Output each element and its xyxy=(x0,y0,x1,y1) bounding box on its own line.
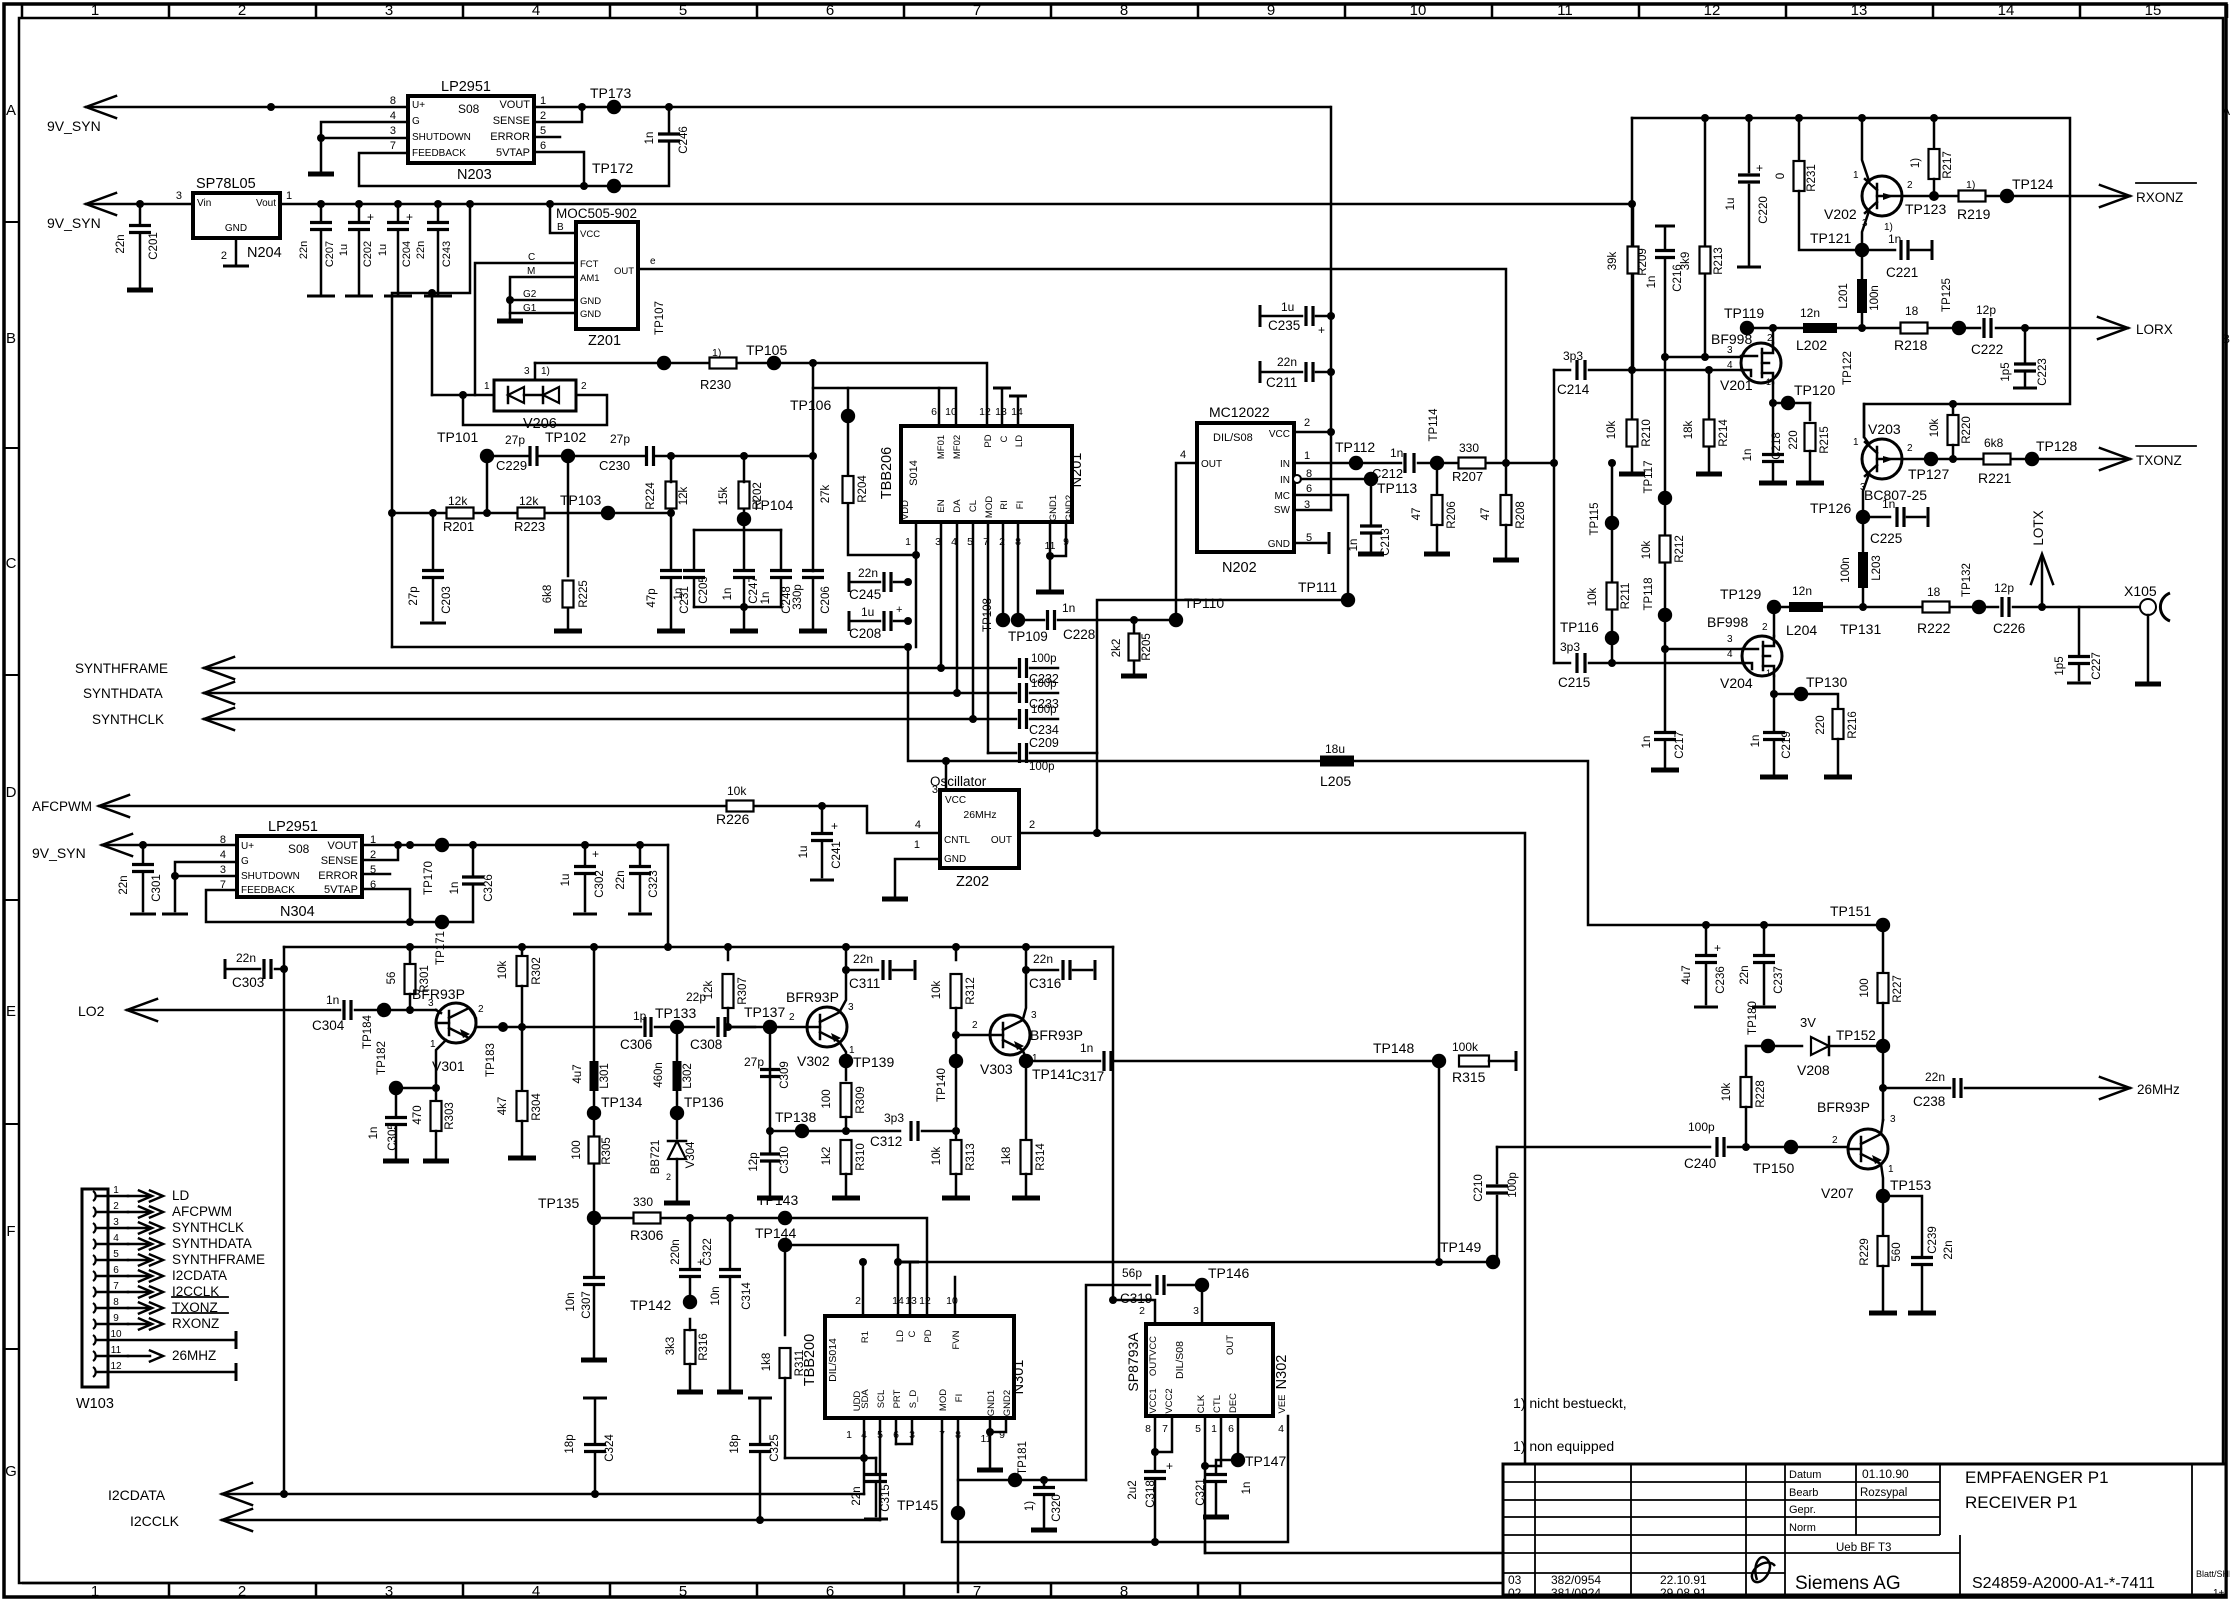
terminal pin13 no-connect xyxy=(1001,390,1004,426)
wire N204 Vout 9V rail to x1632 xyxy=(280,203,1632,206)
test point TP153 xyxy=(1876,1189,1890,1203)
node R213 bottom gate3 xyxy=(1701,353,1709,361)
svg-text:3p3: 3p3 xyxy=(1563,349,1583,363)
node C201 tap xyxy=(136,200,144,208)
wire TP101 down xyxy=(486,456,489,513)
svg-text:4: 4 xyxy=(532,2,540,19)
svg-text:10k: 10k xyxy=(1929,418,1941,437)
wire TP152 down xyxy=(1882,1046,1885,1088)
svg-text:22n: 22n xyxy=(298,241,310,259)
node C209 OUT junction xyxy=(1093,829,1101,837)
connector W103 pin 9 RXONZ xyxy=(93,1319,96,1329)
wire R230 line xyxy=(535,363,987,426)
capacitor C305 1n xyxy=(395,1088,398,1116)
svg-text:TBB200: TBB200 xyxy=(802,1334,818,1386)
svg-text:TP120: TP120 xyxy=(1794,382,1835,398)
svg-text:R231: R231 xyxy=(1806,164,1818,192)
net TXONZ arrow xyxy=(2100,448,2130,470)
svg-text:TP147: TP147 xyxy=(1245,1453,1286,1469)
svg-text:Siemens AG: Siemens AG xyxy=(1795,1573,1901,1594)
svg-text:7: 7 xyxy=(113,1281,119,1292)
capacitor C211 22n xyxy=(1259,361,1262,383)
resistor R209 39k xyxy=(1628,247,1639,274)
svg-text:C205: C205 xyxy=(698,576,710,604)
wire RI pin2 xyxy=(1002,522,1005,620)
svg-text:1) non equipped: 1) non equipped xyxy=(1513,1438,1614,1454)
svg-text:AFCPWM: AFCPWM xyxy=(172,1204,232,1219)
net SYNTHFRAME arrow xyxy=(204,657,234,679)
node C237 tap xyxy=(1760,921,1768,929)
resistor R210 10k xyxy=(1631,370,1634,420)
wire EN pin3 xyxy=(940,522,943,668)
node C316 tap xyxy=(1022,966,1030,974)
capacitor C210 100p xyxy=(1493,1196,1497,1262)
svg-text:TP142: TP142 xyxy=(630,1297,671,1313)
wire VCC vertical xyxy=(1330,107,1333,510)
svg-text:V207: V207 xyxy=(1821,1185,1854,1201)
resistor R229 560 xyxy=(1882,1196,1885,1236)
capacitor C243 22n xyxy=(437,204,440,222)
svg-text:TP180: TP180 xyxy=(1747,1001,1759,1035)
svg-text:12p: 12p xyxy=(1994,581,2014,595)
test point TP127 xyxy=(1924,452,1938,466)
svg-text:I2CDATA: I2CDATA xyxy=(108,1487,166,1503)
test point TP113 xyxy=(1364,472,1378,486)
voltage regulator N204 SP78L05 box xyxy=(193,193,280,238)
svg-text:R214: R214 xyxy=(1718,419,1730,447)
test point TP125 xyxy=(1952,321,1966,335)
svg-text:TP108: TP108 xyxy=(982,598,994,632)
test point TP101 xyxy=(480,449,494,463)
svg-text:C247: C247 xyxy=(748,576,760,604)
svg-text:L203: L203 xyxy=(1871,555,1883,581)
test point TP148 xyxy=(1432,1054,1446,1068)
wire bracket vertical xyxy=(1553,370,1556,663)
node Z201 B tap xyxy=(546,200,554,208)
svg-text:47p: 47p xyxy=(646,588,658,607)
wire N304 SENSE xyxy=(362,845,398,860)
svg-text:D: D xyxy=(6,784,17,801)
svg-text:2: 2 xyxy=(1139,1305,1145,1317)
svg-text:100p: 100p xyxy=(1031,704,1057,716)
svg-text:N202: N202 xyxy=(1222,560,1257,576)
resistor R304 4k7 xyxy=(521,1027,524,1090)
connector W103 pin 1 LD xyxy=(93,1191,96,1201)
svg-text:4u7: 4u7 xyxy=(1681,965,1693,984)
wire N301 SDA xyxy=(863,1418,866,1494)
wire N202 SW pin3 xyxy=(1294,509,1331,512)
svg-text:TP115: TP115 xyxy=(1589,502,1601,535)
svg-text:Vout: Vout xyxy=(256,198,276,209)
svg-text:1p5: 1p5 xyxy=(2054,656,2066,675)
svg-text:1: 1 xyxy=(1211,1423,1217,1435)
wire TP138 line xyxy=(768,1130,900,1133)
svg-text:6: 6 xyxy=(540,140,546,152)
svg-text:R210: R210 xyxy=(1641,419,1653,447)
node V204 gate3 xyxy=(1661,645,1669,653)
wire N302 OUTVCC feed xyxy=(1113,1300,1155,1324)
inductor L302 460n xyxy=(676,1027,679,1060)
svg-text:LORX: LORX xyxy=(2136,322,2173,337)
svg-text:TP110: TP110 xyxy=(1184,595,1224,611)
wire MOD to C209 line xyxy=(988,752,1016,755)
node R205 top xyxy=(1130,616,1138,624)
svg-text:TP124: TP124 xyxy=(2012,176,2053,192)
svg-text:7: 7 xyxy=(973,1583,981,1600)
svg-text:S08: S08 xyxy=(458,102,480,116)
capacitor C219 1n xyxy=(1773,694,1776,730)
node C204 tap xyxy=(394,200,402,208)
svg-text:R223: R223 xyxy=(514,519,545,534)
ground N203 shutdown xyxy=(308,172,334,177)
svg-text:2: 2 xyxy=(1907,443,1913,454)
node VDD R204 junction xyxy=(912,551,920,559)
svg-text:C243: C243 xyxy=(441,241,453,267)
svg-text:TP184: TP184 xyxy=(362,1014,374,1048)
capacitor C202 1u polarized xyxy=(358,204,361,222)
svg-text:330p: 330p xyxy=(792,584,804,610)
node EN junction xyxy=(937,664,945,672)
svg-text:V204: V204 xyxy=(1720,675,1753,691)
svg-text:SYNTHCLK: SYNTHCLK xyxy=(92,712,164,727)
capacitor C320 1) xyxy=(1040,1476,1048,1484)
wire TP131 line xyxy=(1774,606,1998,609)
test point TP152 xyxy=(1876,1039,1890,1053)
wire C228 line xyxy=(1018,619,1044,622)
wire R201 line xyxy=(392,512,671,515)
svg-text:C: C xyxy=(999,435,1010,442)
svg-text:DEC: DEC xyxy=(1228,1393,1239,1413)
svg-text:V202: V202 xyxy=(1824,206,1857,222)
svg-text:GND2: GND2 xyxy=(1064,495,1075,521)
wire N302 CLK xyxy=(1204,1416,1207,1553)
svg-text:7: 7 xyxy=(1162,1423,1168,1435)
node VOUT x410 xyxy=(406,841,414,849)
svg-text:A: A xyxy=(6,102,16,119)
node R202 top xyxy=(740,452,748,460)
svg-text:R226: R226 xyxy=(716,811,750,827)
test point TP143 xyxy=(778,1211,792,1225)
svg-text:R304: R304 xyxy=(531,1093,543,1121)
test point TP144 xyxy=(778,1238,792,1252)
wire C309 C310 column xyxy=(769,1027,772,1131)
svg-text:R213: R213 xyxy=(1713,247,1725,275)
svg-text:3: 3 xyxy=(848,1002,854,1013)
svg-text:I2CDATA: I2CDATA xyxy=(172,1268,227,1283)
wire N301 SCL xyxy=(879,1418,882,1520)
svg-text:2: 2 xyxy=(478,1004,484,1015)
resistor R215 220 xyxy=(1809,403,1812,420)
resistor R307 12k xyxy=(727,947,730,960)
svg-text:3: 3 xyxy=(1727,345,1733,356)
svg-text:9: 9 xyxy=(1267,2,1275,19)
resistor R303 470 xyxy=(435,1088,438,1101)
IC N301 TBB200 box xyxy=(825,1316,1014,1418)
svg-text:L202: L202 xyxy=(1796,337,1827,353)
svg-text:S24859-A2000-A1-*-7411: S24859-A2000-A1-*-7411 xyxy=(1972,1575,2155,1592)
capacitor C248 1n xyxy=(780,530,783,568)
svg-text:TP170: TP170 xyxy=(423,861,435,895)
svg-text:SYNTHCLK: SYNTHCLK xyxy=(172,1220,244,1235)
svg-text:1u: 1u xyxy=(798,846,810,859)
svg-text:8: 8 xyxy=(1120,1583,1128,1600)
test point TP145 xyxy=(951,1506,965,1520)
svg-text:C201: C201 xyxy=(148,232,160,260)
node C325 junction xyxy=(756,1516,764,1524)
svg-text:L205: L205 xyxy=(1320,773,1351,789)
capacitor C304 1n xyxy=(344,1000,351,1020)
capacitor C319 56p xyxy=(1157,1275,1164,1295)
svg-text:VOUT: VOUT xyxy=(499,99,530,111)
svg-text:C203: C203 xyxy=(441,586,453,614)
svg-text:3p3: 3p3 xyxy=(884,1111,904,1125)
wire Z201 B xyxy=(550,204,576,233)
connector W103 pin 12 xyxy=(93,1367,96,1377)
svg-text:TP117: TP117 xyxy=(1643,460,1655,493)
svg-text:2: 2 xyxy=(581,381,587,392)
svg-text:1: 1 xyxy=(914,839,920,851)
svg-text:TP140: TP140 xyxy=(936,1068,948,1102)
svg-text:12n: 12n xyxy=(1792,584,1812,598)
svg-text:TP149: TP149 xyxy=(1440,1239,1481,1255)
test point TP115 xyxy=(1605,516,1619,530)
svg-text:2: 2 xyxy=(789,1012,795,1023)
node DA junction xyxy=(953,689,961,697)
svg-text:1n: 1n xyxy=(644,132,656,145)
resistor R206 47 xyxy=(1436,463,1439,494)
svg-text:C218: C218 xyxy=(1771,432,1783,460)
svg-text:C310: C310 xyxy=(779,1146,791,1174)
svg-text:MOD: MOD xyxy=(938,1389,949,1411)
svg-text:1u: 1u xyxy=(338,244,350,256)
test point TP105 xyxy=(767,356,781,370)
svg-text:R217: R217 xyxy=(1942,151,1954,179)
varicap diode V304 BB721 xyxy=(668,1141,686,1159)
node emitter junction xyxy=(432,1084,440,1092)
svg-text:1: 1 xyxy=(540,95,546,107)
svg-text:R206: R206 xyxy=(1446,501,1458,529)
svg-text:+: + xyxy=(1756,161,1763,175)
wire R212 column xyxy=(1664,357,1667,649)
svg-text:22n: 22n xyxy=(415,241,427,259)
test point TP132 xyxy=(1972,600,1986,614)
svg-text:C239: C239 xyxy=(1927,1226,1939,1254)
node TP131 xyxy=(1859,603,1867,611)
net 9V_SYN arrow lower xyxy=(102,834,132,856)
wire supply rail lower section xyxy=(392,646,908,649)
transistor V301 BFR93P xyxy=(436,1003,476,1043)
wire V206 pin3 xyxy=(534,363,537,380)
node R211 top xyxy=(1608,459,1616,467)
svg-text:EMPFAENGER P1: EMPFAENGER P1 xyxy=(1965,1468,2109,1487)
svg-text:11: 11 xyxy=(1557,2,1573,19)
wire V301 base xyxy=(436,1010,441,1013)
svg-text:L201: L201 xyxy=(1838,283,1850,309)
node 5VTAP-feedback junction xyxy=(580,182,588,190)
svg-text:2: 2 xyxy=(1832,1135,1838,1146)
svg-text:W103: W103 xyxy=(76,1396,114,1412)
wire C205 C247 C248 bracket top xyxy=(694,529,781,532)
net SYNTHCLK arrow xyxy=(204,708,234,730)
inductor L204 12n xyxy=(1789,602,1823,612)
svg-text:C234: C234 xyxy=(1029,723,1059,737)
svg-text:5: 5 xyxy=(113,1249,119,1260)
svg-text:56: 56 xyxy=(386,972,398,985)
resistor R221 6k8 xyxy=(1984,454,2011,465)
svg-text:C221: C221 xyxy=(1886,265,1918,280)
wire V303 collector xyxy=(1023,947,1026,1019)
wire FI pin8 xyxy=(1017,522,1020,620)
wire SYNTHCLK xyxy=(204,718,1016,721)
connector W103 pin 2 AFCPWM xyxy=(93,1207,96,1217)
wire C319 branch xyxy=(1086,1285,1150,1480)
svg-text:6: 6 xyxy=(1306,483,1312,495)
svg-text:R302: R302 xyxy=(531,957,543,985)
wire V204 gate3 line xyxy=(1665,648,1742,651)
capacitor C218 1n xyxy=(1772,403,1775,452)
node TP122 xyxy=(1858,324,1866,332)
svg-text:4: 4 xyxy=(1727,360,1733,371)
svg-text:MOC505-902: MOC505-902 xyxy=(556,206,637,221)
wire I2CCLK xyxy=(222,1519,880,1522)
svg-text:1u: 1u xyxy=(1281,300,1294,314)
svg-text:DIL/S014: DIL/S014 xyxy=(827,1338,839,1382)
svg-text:TP129: TP129 xyxy=(1720,586,1761,602)
svg-text:12k: 12k xyxy=(519,494,539,508)
svg-text:C305: C305 xyxy=(387,1123,399,1151)
svg-text:TP127: TP127 xyxy=(1908,466,1949,482)
diode V208 3V zener xyxy=(1811,1037,1829,1055)
svg-text:12: 12 xyxy=(1704,2,1721,19)
svg-text:2: 2 xyxy=(540,110,546,122)
capacitor C212 1n xyxy=(1405,453,1414,473)
capacitor C237 22n xyxy=(1763,925,1766,953)
resistor R302 10k xyxy=(521,947,524,955)
wire N301 PRT stub xyxy=(895,1418,898,1444)
svg-text:2: 2 xyxy=(238,2,246,19)
svg-text:2: 2 xyxy=(221,250,227,262)
svg-text:N302: N302 xyxy=(1274,1355,1290,1390)
svg-text:U+: U+ xyxy=(412,100,425,111)
svg-text:TP137: TP137 xyxy=(744,1004,785,1020)
svg-text:R303: R303 xyxy=(444,1102,456,1130)
wire N302 VCC1 VCC2 xyxy=(1155,1416,1172,1452)
svg-text:100p: 100p xyxy=(1688,1120,1715,1134)
svg-text:1n: 1n xyxy=(1888,232,1901,246)
wire N203 pin4 G xyxy=(321,122,408,138)
svg-text:1k8: 1k8 xyxy=(1001,1147,1013,1166)
capacitor C229 27p line xyxy=(487,455,530,458)
svg-text:FEEDBACK: FEEDBACK xyxy=(412,148,466,159)
node rail R302 xyxy=(518,943,526,951)
wire V201 gate3 line xyxy=(1664,356,1741,359)
svg-text:V303: V303 xyxy=(980,1061,1013,1077)
svg-text:EN: EN xyxy=(936,499,947,512)
test point TP147 xyxy=(1231,1453,1245,1467)
svg-text:01.10.90: 01.10.90 xyxy=(1862,1467,1909,1481)
svg-text:M: M xyxy=(527,266,535,277)
svg-text:+: + xyxy=(1714,941,1721,955)
test point TP133 xyxy=(670,1020,684,1034)
resistor R306 330 xyxy=(634,1213,661,1224)
test point TP146 xyxy=(1195,1278,1209,1292)
test point TP151 xyxy=(1876,918,1890,932)
svg-text:TP153: TP153 xyxy=(1890,1177,1931,1193)
svg-text:220: 220 xyxy=(1815,715,1827,734)
wire TP153 to C239 xyxy=(1883,1196,1922,1255)
svg-text:G: G xyxy=(241,856,249,867)
svg-text:3k3: 3k3 xyxy=(665,1337,677,1356)
svg-text:10k: 10k xyxy=(1641,540,1653,559)
capacitor C246 1n xyxy=(668,107,671,134)
svg-text:+: + xyxy=(592,847,599,861)
wire Z201 G2 xyxy=(510,299,576,302)
resistor R311 1k8 xyxy=(784,1245,787,1335)
wire Z202 GND xyxy=(895,859,940,896)
node C301 tap xyxy=(139,841,147,849)
wire rail right arm down xyxy=(1112,947,1115,1300)
svg-text:DIL/S08: DIL/S08 xyxy=(1174,1341,1186,1379)
svg-text:11: 11 xyxy=(111,1345,122,1356)
svg-text:CNTL: CNTL xyxy=(944,835,971,846)
test point TP141 xyxy=(1019,1054,1033,1068)
svg-text:100: 100 xyxy=(1859,978,1871,997)
svg-text:TP144: TP144 xyxy=(755,1225,796,1241)
node rail VDD xyxy=(904,643,912,651)
svg-text:330: 330 xyxy=(633,1195,653,1209)
wire V207 collector xyxy=(1881,1120,1883,1134)
svg-text:2: 2 xyxy=(972,1020,978,1031)
svg-text:N304: N304 xyxy=(280,904,315,920)
wire V201 source xyxy=(1772,383,1775,403)
wire 9V to N304 xyxy=(102,844,237,847)
net SYNTHDATA arrow xyxy=(204,682,234,704)
svg-text:1: 1 xyxy=(846,1429,852,1441)
capacitor C326 1n xyxy=(472,886,475,922)
svg-text:100p: 100p xyxy=(1031,653,1057,665)
svg-text:10n: 10n xyxy=(565,1292,577,1311)
svg-text:2: 2 xyxy=(1029,819,1035,831)
svg-text:Blatt/SHEET: Blatt/SHEET xyxy=(2196,1569,2230,1579)
svg-text:TP133: TP133 xyxy=(655,1005,696,1021)
IC Z201 MOC505-902 box xyxy=(576,222,638,329)
node junction on 9V_SYN xyxy=(267,103,275,111)
svg-text:+: + xyxy=(406,210,413,224)
test point TP135 xyxy=(587,1211,601,1225)
connector W103 pin 4 SYNTHDATA xyxy=(93,1239,96,1249)
svg-text:3: 3 xyxy=(1727,634,1733,645)
svg-text:22n: 22n xyxy=(118,875,130,894)
net LORX arrow xyxy=(2098,317,2128,339)
node rail V202 xyxy=(1858,114,1866,122)
node R208 junction xyxy=(1502,459,1510,467)
svg-text:1u: 1u xyxy=(1725,198,1737,211)
wire x813 vertical xyxy=(812,363,815,571)
IC N202 MC12022 box xyxy=(1197,423,1294,552)
svg-text:e: e xyxy=(650,256,656,267)
svg-text:22n: 22n xyxy=(858,566,878,580)
capacitor C317 1n xyxy=(1104,1051,1111,1071)
wire V302 emitter xyxy=(840,1043,846,1061)
svg-text:Z201: Z201 xyxy=(588,333,621,349)
wire TP144 line to TP149 xyxy=(785,1245,1493,1262)
capacitor C234 100p xyxy=(1020,709,1027,729)
svg-text:8: 8 xyxy=(1145,1423,1151,1435)
svg-text:VEE: VEE xyxy=(1277,1394,1288,1413)
svg-text:TP145: TP145 xyxy=(897,1497,938,1513)
wire N203 pin2 SENSE xyxy=(534,107,582,122)
node C311 tap xyxy=(842,966,850,974)
